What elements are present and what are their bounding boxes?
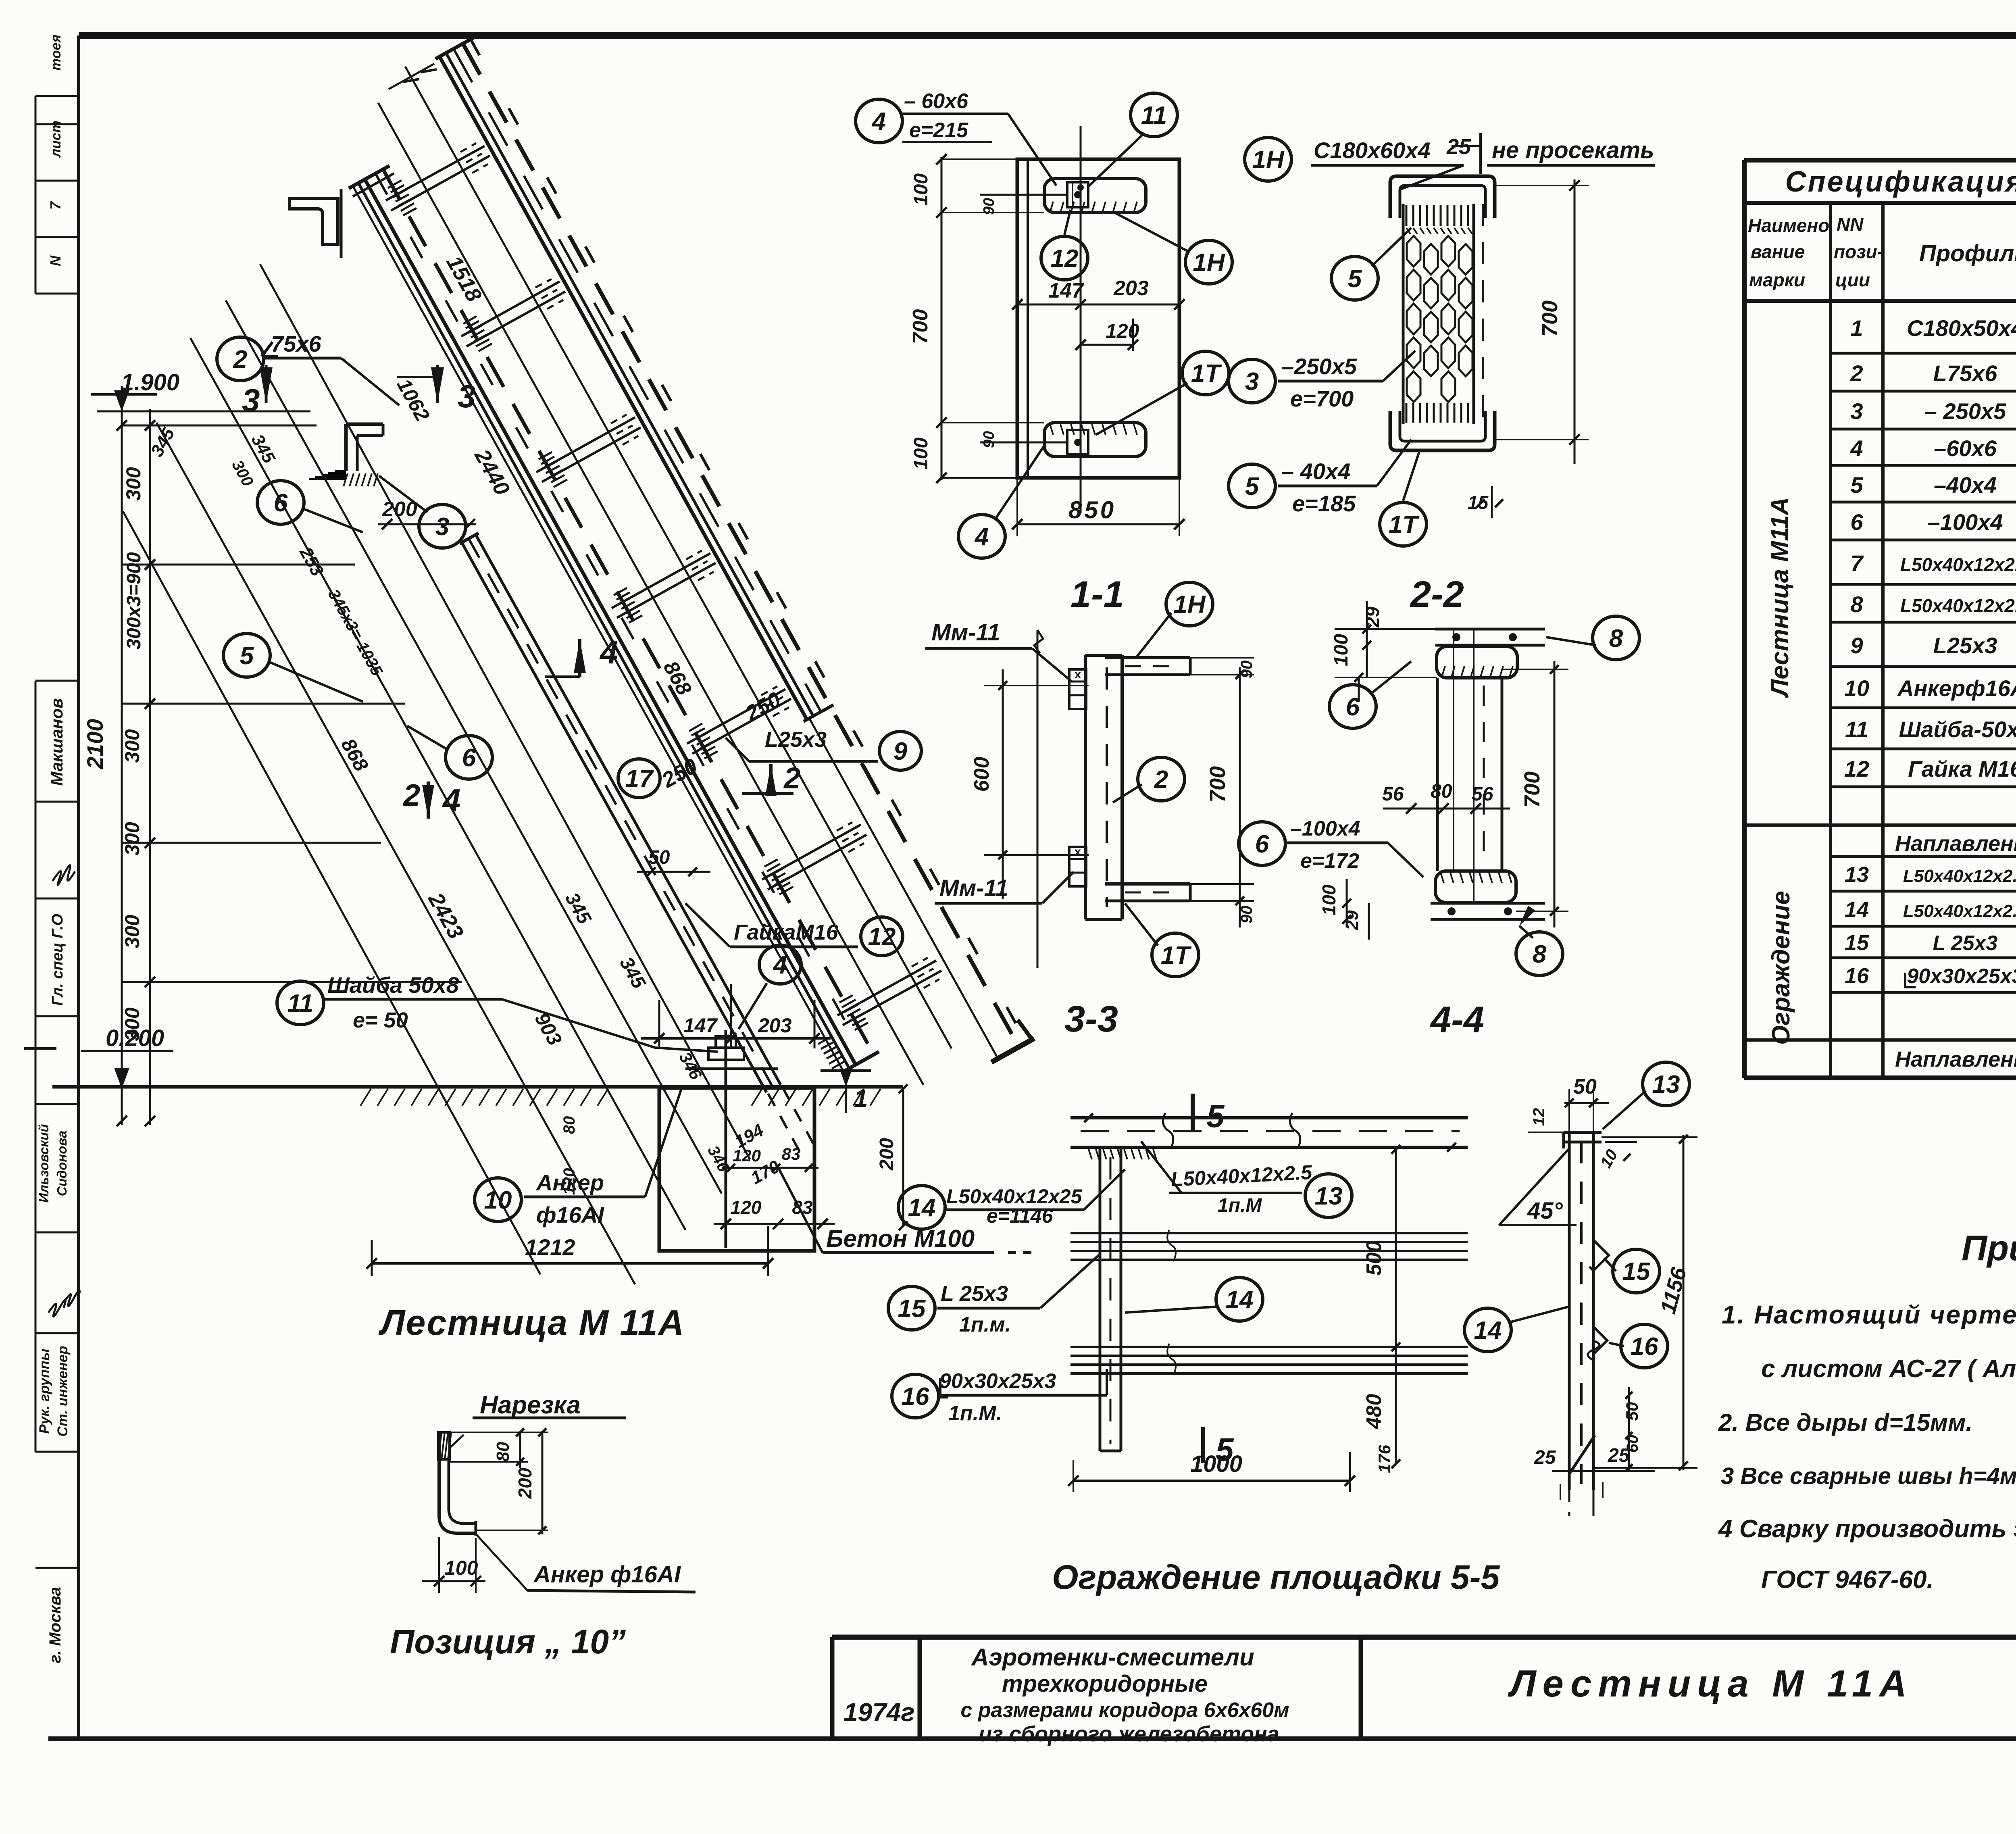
svg-text:Мм-11: Мм-11 (939, 875, 1008, 901)
svg-text:2: 2 (1154, 766, 1168, 794)
svg-text:1: 1 (854, 1085, 868, 1113)
svg-text:15: 15 (1622, 1258, 1651, 1286)
svg-text:г. Москва: г. Москва (46, 1587, 64, 1663)
svg-text:3: 3 (242, 382, 260, 418)
svg-text:ГайкаМ16: ГайкаМ16 (734, 920, 839, 944)
svg-text:6: 6 (1255, 830, 1269, 858)
svg-text:Спецификация металла на одн: Спецификация металла на одну марку (1785, 166, 2016, 198)
svg-text:е=700: е=700 (1290, 386, 1354, 411)
svg-text:–100х4: –100х4 (1290, 817, 1360, 840)
svg-text:Нарезка: Нарезка (480, 1391, 581, 1419)
svg-text:90: 90 (981, 431, 998, 448)
svg-text:Макшанов: Макшанов (47, 698, 66, 786)
svg-text:Ст. инженер: Ст. инженер (55, 1346, 71, 1436)
svg-text:ф16АI: ф16АI (536, 1202, 604, 1228)
svg-text:147: 147 (683, 1014, 718, 1037)
svg-text:100: 100 (1318, 884, 1339, 915)
svg-text:120: 120 (1106, 320, 1139, 342)
svg-text:10: 10 (484, 1186, 512, 1214)
svg-text:L75х6: L75х6 (1933, 361, 1998, 386)
svg-text:100: 100 (910, 173, 932, 206)
svg-text:14: 14 (1226, 1286, 1254, 1314)
svg-text:300: 300 (121, 822, 144, 856)
svg-text:5: 5 (1850, 472, 1863, 498)
svg-text:2: 2 (402, 778, 420, 813)
svg-text:1: 1 (1850, 315, 1863, 341)
svg-text:С180х60х4: С180х60х4 (1314, 138, 1431, 163)
svg-text:– 250х5: – 250х5 (1924, 398, 2006, 424)
svg-text:16: 16 (1631, 1333, 1658, 1361)
svg-text:200: 200 (876, 1138, 898, 1171)
svg-text:6: 6 (1346, 693, 1360, 721)
svg-text:Наплавленный металл1%: Наплавленный металл1% (1895, 1047, 2016, 1071)
svg-text:203: 203 (1113, 277, 1149, 300)
svg-text:1212: 1212 (525, 1234, 575, 1260)
svg-text:203: 203 (758, 1014, 792, 1037)
svg-text:ции: ции (1835, 269, 1870, 290)
svg-text:700: 700 (909, 309, 932, 344)
svg-text:56: 56 (1472, 784, 1493, 805)
svg-text:3: 3 (458, 378, 476, 414)
svg-text:х: х (1075, 668, 1081, 681)
svg-text:80: 80 (1431, 781, 1452, 802)
svg-text:11: 11 (1845, 717, 1868, 742)
svg-text:2: 2 (233, 346, 247, 373)
svg-text:13: 13 (1315, 1182, 1343, 1210)
svg-text:Шайба 50х8: Шайба 50х8 (327, 972, 459, 998)
svg-text:850: 850 (1068, 496, 1116, 523)
svg-text:вание: вание (1751, 241, 1805, 262)
svg-text:12: 12 (868, 923, 896, 951)
svg-text:L50х40х12х2.5: L50х40х12х2.5 (1903, 866, 2016, 886)
svg-text:2100: 2100 (82, 719, 108, 770)
svg-text:300: 300 (121, 729, 144, 763)
svg-text:200: 200 (514, 1467, 535, 1499)
svg-text:ГОСТ 9467-60.: ГОСТ 9467-60. (1761, 1566, 1934, 1594)
svg-text:11: 11 (1141, 102, 1167, 129)
svg-text:120: 120 (733, 1146, 761, 1165)
svg-text:600: 600 (970, 757, 993, 792)
svg-text:16: 16 (902, 1383, 929, 1411)
svg-text:4: 4 (1850, 436, 1863, 461)
svg-text:Позиция „ 10”: Позиция „ 10” (390, 1623, 626, 1661)
svg-text:е=185: е=185 (1292, 491, 1356, 516)
svg-text:Ограждение: Ограждение (1767, 891, 1795, 1045)
svg-text:176: 176 (1375, 1444, 1394, 1473)
svg-text:700: 700 (1520, 771, 1544, 808)
svg-text:9: 9 (893, 738, 908, 765)
svg-text:4: 4 (442, 782, 461, 818)
svg-text:15: 15 (1845, 931, 1869, 955)
svg-text:5: 5 (1206, 1098, 1225, 1134)
svg-text:29: 29 (1362, 606, 1383, 628)
svg-text:480: 480 (1362, 1394, 1386, 1430)
svg-text:83: 83 (782, 1144, 801, 1163)
svg-text:е= 50: е= 50 (353, 1008, 408, 1032)
svg-text:90х30х25х3: 90х30х25х3 (1907, 965, 2016, 988)
svg-text:100: 100 (1331, 634, 1352, 666)
svg-text:500: 500 (1362, 1241, 1386, 1276)
svg-text:–250х5: –250х5 (1281, 354, 1357, 379)
svg-text:L50х40х12х2.5: L50х40х12х2.5 (1900, 595, 2016, 616)
svg-text:Наплавленный металл: Наплавленный металл (1895, 832, 2016, 856)
svg-text:4: 4 (871, 108, 886, 135)
svg-text:300х3=900: 300х3=900 (123, 552, 145, 650)
svg-text:1Н: 1Н (1173, 591, 1206, 619)
svg-text:700: 700 (1206, 766, 1230, 802)
svg-text:L 25х3: L 25х3 (1933, 932, 1998, 955)
svg-text:2: 2 (1850, 361, 1863, 386)
svg-text:90: 90 (981, 198, 998, 215)
svg-text:–100х4: –100х4 (1928, 509, 2003, 535)
svg-text:25: 25 (1534, 1447, 1556, 1468)
svg-text:6: 6 (462, 744, 476, 772)
svg-text:9: 9 (1850, 633, 1863, 658)
svg-text:300: 300 (121, 915, 144, 948)
svg-text:6: 6 (1850, 509, 1863, 535)
svg-text:147: 147 (1048, 279, 1084, 302)
svg-text:3: 3 (1850, 398, 1863, 424)
svg-text:17: 17 (625, 765, 654, 793)
svg-text:8: 8 (1609, 625, 1623, 652)
svg-text:Лестница М 11А: Лестница М 11А (378, 1303, 685, 1342)
svg-text:L25х3: L25х3 (1933, 633, 1997, 658)
svg-text:300: 300 (121, 1007, 144, 1041)
svg-text:83: 83 (792, 1197, 813, 1218)
svg-text:–60х6: –60х6 (1934, 436, 1997, 461)
svg-text:15: 15 (1468, 492, 1489, 513)
svg-text:700: 700 (1538, 300, 1562, 337)
svg-text:пози-: пози- (1834, 241, 1883, 262)
svg-text:Аэротенки-смесители: Аэротенки-смесители (971, 1644, 1254, 1671)
svg-text:90х30х25х3: 90х30х25х3 (939, 1369, 1056, 1393)
svg-text:L50х40х12х2.5: L50х40х12х2.5 (1903, 901, 2016, 921)
svg-text:1п.м.: 1п.м. (959, 1313, 1011, 1336)
svg-text:12: 12 (1530, 1108, 1548, 1126)
svg-text:Гайка М16: Гайка М16 (1908, 756, 2016, 782)
svg-text:Гл. спец Г.О: Гл. спец Г.О (49, 914, 66, 1006)
svg-text:марки: марки (1749, 269, 1805, 290)
svg-text:4: 4 (974, 523, 989, 551)
svg-text:2-2: 2-2 (1410, 574, 1464, 615)
svg-text:5: 5 (240, 642, 254, 670)
svg-text:1п.М: 1п.М (1218, 1195, 1262, 1216)
svg-text:12: 12 (1051, 245, 1079, 273)
svg-text:50: 50 (1622, 1402, 1641, 1421)
svg-text:Шайба-50х8: Шайба-50х8 (1899, 717, 2016, 742)
svg-text:1Т: 1Т (1191, 360, 1222, 388)
svg-text:L50х40х12х2.5: L50х40х12х2.5 (1900, 554, 2016, 575)
svg-text:1п.М.: 1п.М. (948, 1402, 1002, 1425)
svg-text:45°: 45° (1527, 1198, 1563, 1224)
svg-text:NN: NN (1837, 214, 1864, 235)
svg-text:2. Все дыры d=15мм.: 2. Все дыры d=15мм. (1718, 1409, 1972, 1436)
svg-text:5: 5 (1245, 473, 1260, 500)
svg-text:Ильзовский: Ильзовский (36, 1124, 51, 1203)
svg-text:8: 8 (1533, 940, 1547, 968)
svg-text:Анкерф16АI: Анкерф16АI (1897, 675, 2016, 701)
svg-text:15: 15 (898, 1295, 926, 1323)
svg-text:11: 11 (287, 990, 313, 1017)
svg-text:6: 6 (274, 489, 288, 517)
svg-text:Мм-11: Мм-11 (931, 619, 1000, 646)
svg-text:не просекать: не просекать (1492, 137, 1654, 163)
svg-text:Ограждение площадки 5-5: Ограждение площадки 5-5 (1052, 1558, 1500, 1596)
svg-text:14: 14 (1845, 898, 1869, 922)
svg-text:5: 5 (1348, 265, 1362, 293)
svg-text:Примечания:: Примечания: (1962, 1228, 2016, 1268)
svg-text:е=1146: е=1146 (987, 1205, 1054, 1227)
svg-text:100: 100 (444, 1557, 478, 1579)
svg-text:е=172: е=172 (1300, 849, 1359, 873)
svg-text:14: 14 (1474, 1317, 1502, 1344)
svg-text:Рук. группы: Рук. группы (37, 1348, 52, 1434)
svg-text:100: 100 (910, 438, 932, 470)
svg-text:16: 16 (1845, 964, 1869, 988)
svg-text:L25х3: L25х3 (765, 727, 827, 752)
svg-text:4-4: 4-4 (1430, 999, 1484, 1040)
svg-text:из сборного железобетона: из сборного железобетона (979, 1722, 1279, 1746)
svg-text:3 Все сварные швы h=4мм.: 3 Все сварные швы h=4мм. (1721, 1463, 2016, 1489)
svg-text:3-3: 3-3 (1064, 998, 1118, 1040)
svg-text:7: 7 (1850, 550, 1864, 576)
svg-text:56: 56 (1382, 784, 1404, 805)
svg-text:N: N (47, 255, 64, 266)
svg-text:13: 13 (1845, 863, 1869, 887)
svg-text:50: 50 (648, 847, 670, 868)
svg-text:80: 80 (493, 1442, 513, 1461)
svg-text:3: 3 (1245, 368, 1259, 396)
svg-text:– 60х6: – 60х6 (904, 90, 968, 113)
svg-text:1Н: 1Н (1252, 146, 1284, 174)
svg-text:14: 14 (908, 1194, 936, 1222)
svg-text:–40х4: –40х4 (1934, 472, 1997, 498)
svg-text:Лестница М11А: Лестница М11А (1766, 497, 1794, 698)
svg-text:Профиль: Профиль (1919, 240, 2016, 267)
svg-text:7: 7 (47, 201, 64, 210)
svg-text:1-1: 1-1 (1070, 574, 1124, 615)
svg-text:– 40х4: – 40х4 (1281, 458, 1350, 484)
svg-text:75х6: 75х6 (271, 331, 321, 356)
svg-text:Сидонова: Сидонова (54, 1131, 69, 1196)
svg-text:120: 120 (731, 1197, 762, 1218)
svg-text:е=215: е=215 (909, 119, 968, 142)
svg-text:4 Сварку производить электрод: 4 Сварку производить электродами типа Э-… (1718, 1515, 2016, 1543)
svg-text:10: 10 (1844, 675, 1869, 701)
svg-text:тоея: тоея (48, 35, 64, 71)
svg-text:300: 300 (122, 467, 145, 501)
svg-text:трехкоридорные: трехкоридорные (1002, 1671, 1208, 1697)
svg-text:13: 13 (1652, 1071, 1680, 1098)
svg-text:х: х (1075, 845, 1081, 859)
svg-text:1Т: 1Т (1389, 511, 1420, 539)
svg-text:90: 90 (1238, 661, 1256, 679)
svg-text:1. Настоящий чертеж рассматрив: 1. Настоящий чертеж рассматривать совмес… (1722, 1300, 2016, 1329)
svg-text:С180х50х4: С180х50х4 (1907, 315, 2016, 341)
svg-text:1000: 1000 (1190, 1451, 1242, 1477)
svg-text:1Н: 1Н (1193, 249, 1225, 277)
svg-text:лист: лист (48, 121, 64, 158)
svg-text:1.900: 1.900 (121, 369, 179, 396)
svg-text:8: 8 (1850, 592, 1863, 617)
svg-text:с листом АС-27 ( Альбом V ).: с листом АС-27 ( Альбом V ). (1761, 1355, 2016, 1383)
svg-text:90: 90 (1238, 906, 1256, 924)
svg-text:L 25х3: L 25х3 (941, 1282, 1008, 1306)
svg-text:80: 80 (560, 1116, 578, 1134)
svg-text:120: 120 (560, 1168, 578, 1195)
svg-text:4: 4 (773, 951, 787, 979)
svg-text:3: 3 (435, 513, 449, 541)
svg-text:Наимено: Наимено (1748, 215, 1829, 236)
svg-text:Анкер ф16АI: Анкер ф16АI (533, 1561, 681, 1588)
svg-text:1974г: 1974г (843, 1698, 915, 1727)
svg-text:с размерами коридора 6х6х60м: с размерами коридора 6х6х60м (960, 1699, 1289, 1722)
svg-text:4: 4 (599, 634, 618, 670)
svg-text:1Т: 1Т (1161, 942, 1192, 969)
svg-text:12: 12 (1844, 756, 1869, 782)
svg-text:Лестница М 11А: Лестница М 11А (1508, 1662, 1913, 1705)
svg-text:2: 2 (783, 761, 800, 795)
